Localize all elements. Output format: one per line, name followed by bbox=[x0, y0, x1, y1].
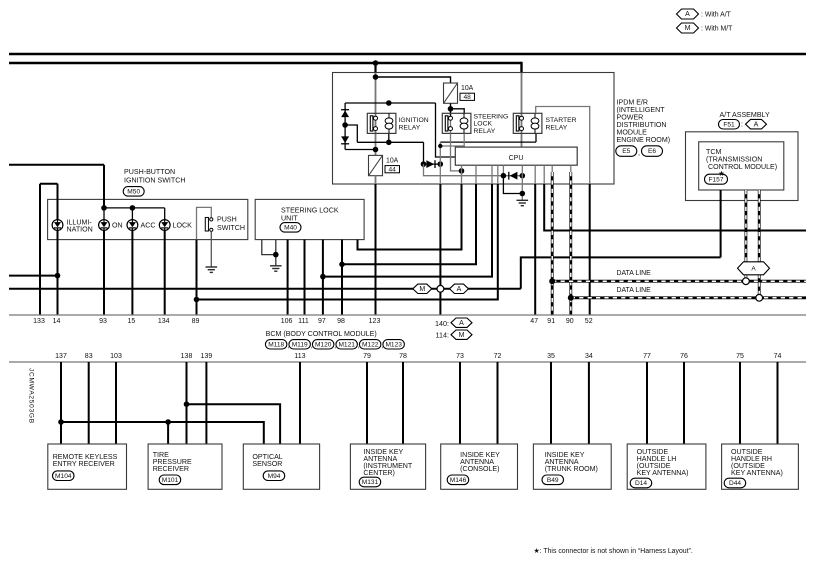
legend hexagon A : With A/T bbox=[677, 9, 699, 19]
diode in series on relay coil return bbox=[424, 163, 441, 165]
node: feed branch to fuse 48 bbox=[373, 74, 379, 80]
node: open circle data line 1 bbox=[743, 278, 750, 285]
node: pin138 branch bbox=[184, 401, 190, 407]
wire: ACC led stub bbox=[131, 208, 133, 220]
node bbox=[520, 191, 526, 197]
wire: diode chain bottom to main feed bbox=[345, 149, 375, 151]
wire: edge line to pin 14 bbox=[9, 275, 58, 277]
svg-text:DATA LINE: DATA LINE bbox=[617, 270, 652, 277]
svg-text:IGNITION SWITCH: IGNITION SWITCH bbox=[124, 177, 185, 185]
LED: ACC bbox=[127, 220, 138, 231]
BCM bottom line bbox=[9, 361, 806, 363]
svg-text:134: 134 bbox=[158, 318, 170, 325]
wire: push switch drop to pin 89 bbox=[196, 240, 198, 315]
svg-text:(CONSOLE): (CONSOLE) bbox=[460, 465, 499, 473]
fuse 44 10A bbox=[369, 155, 383, 175]
svg-text:A: A bbox=[751, 266, 756, 273]
node: SL contact joins L1 vertical bbox=[459, 168, 465, 174]
svg-text:52: 52 bbox=[585, 318, 593, 325]
TCM box bbox=[699, 142, 784, 190]
svg-text:44: 44 bbox=[389, 167, 397, 174]
svg-text:89: 89 bbox=[192, 318, 200, 325]
svg-text:97: 97 bbox=[318, 318, 326, 325]
svg-text:BCM (BODY CONTROL MODULE): BCM (BODY CONTROL MODULE) bbox=[266, 330, 377, 338]
svg-text:RELAY: RELAY bbox=[399, 124, 421, 131]
svg-text:47: 47 bbox=[530, 318, 538, 325]
push switch symbol bbox=[205, 218, 208, 232]
wire: CPU pin L2 bbox=[475, 165, 477, 184]
node: pin 97 branch bbox=[320, 274, 326, 280]
wire: pin 90 dashed drop bbox=[569, 172, 572, 315]
relay: starter relay bbox=[513, 113, 542, 133]
svg-text:M40: M40 bbox=[284, 225, 297, 232]
wire: drop to series diode bbox=[423, 142, 425, 164]
svg-text:ENTRY RECEIVER: ENTRY RECEIVER bbox=[53, 460, 115, 468]
wire: pin 47 drop bbox=[534, 184, 536, 315]
svg-text:D14: D14 bbox=[635, 480, 647, 487]
svg-text:STEERING LOCK: STEERING LOCK bbox=[281, 206, 339, 214]
svg-text:M50: M50 bbox=[127, 189, 140, 196]
ground: CPU ground bbox=[517, 199, 529, 201]
svg-text:91: 91 bbox=[547, 318, 555, 325]
svg-text:ENGINE ROOM): ENGINE ROOM) bbox=[617, 136, 671, 144]
svg-text:14: 14 bbox=[53, 318, 61, 325]
LED: LOCK bbox=[159, 220, 170, 231]
svg-text:93: 93 bbox=[99, 318, 107, 325]
svg-text:74: 74 bbox=[774, 353, 782, 360]
svg-text:IGNITION: IGNITION bbox=[399, 117, 429, 124]
diode D1 (up) bbox=[341, 111, 349, 118]
wire: pin-140 vertical inside IPDM bbox=[439, 142, 441, 184]
svg-text:111: 111 bbox=[298, 318, 309, 325]
svg-text:CENTER): CENTER) bbox=[363, 469, 395, 477]
svg-text:(TRUNK ROOM): (TRUNK ROOM) bbox=[545, 465, 598, 473]
LED: ON bbox=[99, 220, 110, 231]
push switch bridge bbox=[197, 207, 212, 239]
svg-text:E5: E5 bbox=[622, 148, 630, 155]
wire: ignition relay coil top line bbox=[345, 102, 435, 104]
svg-text:CPU: CPU bbox=[509, 155, 524, 162]
wire: TCM solid pin down bbox=[720, 190, 722, 257]
svg-text:E6: E6 bbox=[648, 148, 656, 155]
svg-text::: : bbox=[741, 121, 743, 129]
wire: CPU diode line bbox=[503, 175, 522, 177]
connector F157 bbox=[705, 174, 728, 184]
svg-text:JCMWA2503GB: JCMWA2503GB bbox=[28, 368, 35, 424]
CPU box bbox=[455, 147, 577, 165]
svg-text:LOCK: LOCK bbox=[474, 121, 493, 128]
connector F51 bbox=[719, 120, 740, 130]
wire: fuse 44 output to IPDM bottom bbox=[375, 176, 377, 184]
wire: push switch to ground bbox=[210, 231, 212, 267]
wire: LOCK led stub bbox=[164, 208, 166, 220]
svg-text:M94: M94 bbox=[268, 473, 281, 480]
wire: pin 91 dashed drop bbox=[551, 172, 554, 315]
wire: CPU pin L3 bbox=[491, 165, 493, 184]
wire: SL relay contact bottom to CPU-L1 node bbox=[451, 133, 462, 171]
node: diode chain middle tap bbox=[342, 122, 348, 128]
svg-text:M121: M121 bbox=[338, 342, 355, 349]
svg-text:UNIT: UNIT bbox=[281, 215, 298, 223]
connector M50 bbox=[123, 187, 144, 197]
wire: pin 97 branch to CPU (L3) bbox=[323, 184, 492, 277]
svg-text:72: 72 bbox=[494, 353, 502, 360]
svg-text:RELAY: RELAY bbox=[546, 124, 568, 131]
svg-text:SWITCH: SWITCH bbox=[217, 224, 245, 232]
LED: illumination bbox=[52, 220, 63, 231]
wire: diode middle tap to relay coil-bottom line bbox=[345, 125, 357, 142]
svg-text:M146: M146 bbox=[450, 477, 467, 484]
box: outside handle LH D14 bbox=[627, 444, 706, 489]
wire: SLU right pin to CPU (L1) bbox=[358, 184, 462, 250]
wire: SLU pin 98 bbox=[341, 240, 343, 315]
wire: drop to tire pressure receiver bbox=[167, 422, 169, 444]
wire: TCM dashed pin 2 bbox=[758, 190, 761, 295]
svg-text:NATION: NATION bbox=[67, 226, 93, 234]
svg-text:35: 35 bbox=[547, 353, 555, 360]
svg-text:123: 123 bbox=[369, 318, 381, 325]
wire: pin 140/114 drop bbox=[439, 184, 441, 315]
svg-text:M122: M122 bbox=[362, 342, 379, 349]
wire: ignition coil bottom stub bbox=[388, 133, 390, 142]
wire: CPU pin L4 bbox=[497, 165, 499, 184]
relay: ignition relay bbox=[367, 113, 396, 133]
connector M40 bbox=[280, 223, 301, 233]
wire: pin 133 drop bbox=[39, 184, 41, 315]
wire: CPU pin to A/T line bbox=[543, 165, 545, 184]
wire: CPU pin 47 bbox=[534, 165, 536, 184]
svg-text:48: 48 bbox=[464, 94, 472, 101]
node: bus junction on IPDM main feed bbox=[373, 60, 379, 66]
svg-text:KEY ANTENNA): KEY ANTENNA) bbox=[637, 469, 689, 477]
svg-text:78: 78 bbox=[399, 353, 407, 360]
svg-text:103: 103 bbox=[110, 353, 122, 360]
svg-text:M104: M104 bbox=[55, 473, 72, 480]
svg-text:A: A bbox=[685, 11, 690, 18]
wire: M/T - A/T select line bbox=[9, 288, 521, 290]
wire: pin138 branch to optical sensor bbox=[187, 404, 281, 444]
svg-text:KEY ANTENNA): KEY ANTENNA) bbox=[731, 469, 783, 477]
hexagon M inline bbox=[413, 284, 432, 293]
svg-text:77: 77 bbox=[643, 353, 651, 360]
svg-text:73: 73 bbox=[456, 353, 464, 360]
svg-text:RELAY: RELAY bbox=[474, 128, 496, 135]
connector E6 bbox=[642, 146, 663, 157]
node: pin137 branch bbox=[58, 419, 64, 425]
node bbox=[568, 295, 574, 301]
wire: illumination feed bracket bbox=[40, 183, 58, 185]
node: pin14 edge line junction bbox=[55, 273, 61, 279]
ground: steering lock unit bbox=[270, 265, 282, 267]
wire: main feed vertical into IPDM (to ignition relay and fuse 44) bbox=[374, 62, 376, 73]
svg-text:ACC: ACC bbox=[141, 221, 156, 229]
wire: SLU pin 106 bbox=[287, 240, 289, 315]
box: tire pressure receiver M101 bbox=[148, 444, 222, 489]
diode near CPU (left) bbox=[508, 172, 510, 180]
wire: CPU pin L1 (to steering lock unit) bbox=[461, 165, 463, 184]
svg-text:A/T ASSEMBLY: A/T ASSEMBLY bbox=[720, 111, 770, 119]
node: ignition coil bottom junction bbox=[386, 140, 392, 146]
wire: diode bypass loop bbox=[503, 176, 522, 194]
wire: branch to steering lock relay coil bbox=[451, 109, 465, 114]
wire: branch to fuse 48 bbox=[376, 77, 451, 83]
svg-text:★: This connector is not shown: ★: This connector is not shown in “Harne… bbox=[534, 547, 693, 555]
svg-text:SENSOR: SENSOR bbox=[252, 460, 282, 468]
svg-text:34: 34 bbox=[585, 353, 593, 360]
wire: fuse 48 output to steering lock relay bbox=[450, 103, 452, 133]
node: branch to tire pressure receiver bbox=[165, 419, 171, 425]
wire: TCM line to A-hex line bbox=[521, 257, 721, 288]
legend hexagon M : With M/T bbox=[677, 23, 699, 33]
node: diode chain bottom junction bbox=[373, 147, 379, 153]
svg-text:76: 76 bbox=[680, 353, 688, 360]
wire: pin 89 branch to CPU (L4) bbox=[197, 184, 498, 300]
wires: row 2 pin drops bbox=[60, 362, 62, 444]
wire: SLU ground pins bbox=[262, 240, 276, 255]
svg-text:138: 138 bbox=[181, 353, 193, 360]
svg-text:STEERING: STEERING bbox=[474, 113, 509, 120]
wire: CPU pin to diode line bbox=[502, 165, 504, 176]
svg-text:113: 113 bbox=[294, 353, 305, 360]
A/T assembly box bbox=[686, 132, 799, 201]
node bbox=[520, 173, 526, 179]
node bbox=[501, 173, 507, 179]
svg-text:M119: M119 bbox=[292, 342, 308, 349]
svg-text:M118: M118 bbox=[268, 342, 284, 349]
node: pin 98 branch bbox=[339, 262, 345, 268]
svg-text:137: 137 bbox=[55, 353, 67, 360]
wire: TCM dashed pin 1 bbox=[745, 190, 748, 278]
svg-text:STARTER: STARTER bbox=[546, 117, 577, 124]
wire: relay coil bottom line (right part to starter) bbox=[440, 141, 536, 143]
connector E5 bbox=[616, 146, 637, 157]
relay: steering lock relay bbox=[442, 113, 471, 133]
IPDM E/R box bbox=[333, 73, 615, 185]
svg-text:98: 98 bbox=[337, 318, 345, 325]
node: SL coil joins pin-140 vertical bbox=[438, 144, 442, 148]
box: outside handle RH D44 bbox=[722, 444, 799, 489]
svg-text:B49: B49 bbox=[547, 477, 559, 484]
svg-text:,: , bbox=[638, 149, 640, 157]
box: inside key antenna trunk room B49 bbox=[533, 444, 611, 489]
svg-text:90: 90 bbox=[566, 318, 574, 325]
wire: CPU line to page edge (y=230) bbox=[544, 184, 806, 231]
ground: push switch bbox=[206, 266, 218, 268]
wire: pin137 branch line bbox=[61, 422, 264, 444]
steering lock unit box bbox=[255, 199, 364, 239]
svg-text:10A: 10A bbox=[461, 85, 474, 92]
node: fuse 48 output branch bbox=[448, 106, 454, 112]
wire: relay coil bottom line (left part) bbox=[357, 141, 423, 143]
hexagon A over TCM data pins bbox=[738, 262, 770, 275]
svg-text:15: 15 bbox=[128, 318, 136, 325]
wire: ON led stub bbox=[103, 208, 105, 220]
node: coil top junction bbox=[386, 100, 392, 106]
wire: CPU pin 91 bbox=[551, 165, 553, 172]
wire: LED drops to BCM pins 14/93/15/134 bbox=[57, 230, 59, 315]
svg-text:10A: 10A bbox=[386, 158, 399, 165]
svg-text:106: 106 bbox=[281, 318, 293, 325]
fuse 48 10A bbox=[444, 83, 458, 103]
wire: led top row bbox=[104, 207, 165, 209]
wire: starter coil bottom stub bbox=[535, 133, 537, 142]
svg-text:F51: F51 bbox=[723, 121, 735, 128]
hexagon A (A/T) bbox=[746, 119, 767, 129]
wire: SLU pin 97 bbox=[322, 240, 324, 315]
svg-text:M101: M101 bbox=[162, 477, 179, 484]
box: optical sensor M94 bbox=[243, 444, 319, 489]
hexagon A inline bbox=[450, 284, 469, 293]
svg-text:DATA LINE: DATA LINE bbox=[617, 287, 652, 294]
svg-text:M120: M120 bbox=[315, 342, 332, 349]
svg-text:133: 133 bbox=[33, 318, 45, 325]
wire: battery bus line 1 bbox=[9, 53, 806, 55]
svg-text:75: 75 bbox=[736, 353, 744, 360]
wire: SL relay coil bottom to pin140 drop bbox=[440, 133, 464, 146]
svg-text:PUSH-BUTTON: PUSH-BUTTON bbox=[124, 168, 175, 176]
box: inside key antenna instrument center M131 bbox=[350, 444, 425, 489]
wire: starter relay feed drop from bus 2 bbox=[520, 62, 522, 73]
box: remote keyless entry receiver M104 bbox=[48, 444, 127, 489]
svg-text:A: A bbox=[459, 320, 464, 327]
svg-text:LOCK: LOCK bbox=[173, 221, 193, 229]
wire: pin 123 drop to BCM bbox=[375, 184, 377, 315]
svg-text:M123: M123 bbox=[385, 342, 402, 349]
wire: ILL led top stub bbox=[57, 184, 59, 220]
svg-text:D44: D44 bbox=[729, 480, 741, 487]
svg-text:★: ★ bbox=[718, 169, 725, 178]
push-button ignition switch box bbox=[48, 199, 248, 239]
node bbox=[273, 252, 279, 258]
svg-text:114:: 114: bbox=[436, 331, 449, 340]
wire: pin 52 drop bbox=[589, 184, 591, 315]
wire: pin 98 branch to CPU (L2) bbox=[342, 184, 476, 264]
svg-text:M: M bbox=[419, 286, 425, 293]
svg-text:A: A bbox=[457, 286, 462, 293]
svg-text:: With A/T: : With A/T bbox=[701, 11, 732, 18]
svg-text:: With M/T: : With M/T bbox=[701, 25, 733, 32]
BCM top line bbox=[9, 314, 806, 316]
svg-text:79: 79 bbox=[363, 353, 371, 360]
BCM connectors M118-M123 bbox=[265, 340, 287, 349]
wire: drop to CPU left-side pin bbox=[436, 103, 456, 157]
wire: starter coil top to pin 52 drop bbox=[536, 107, 590, 185]
svg-text:PUSH: PUSH bbox=[217, 216, 237, 224]
svg-text:M131: M131 bbox=[362, 479, 379, 486]
diode chain vertical bbox=[344, 103, 346, 150]
svg-text:M: M bbox=[685, 25, 691, 32]
wire: data line 1 bbox=[552, 280, 806, 283]
diode D2 (down) bbox=[341, 136, 349, 143]
svg-text:RECEIVER: RECEIVER bbox=[153, 465, 189, 473]
wire: data line 2 bbox=[571, 296, 806, 299]
wire: led row feed from page edge bbox=[9, 164, 104, 166]
wire: SLU pin 111 bbox=[304, 240, 306, 315]
node bbox=[549, 278, 555, 284]
svg-text:A: A bbox=[754, 121, 759, 128]
node: pin 89 branch bbox=[194, 297, 200, 303]
svg-text:M: M bbox=[459, 332, 465, 339]
svg-text:140:: 140: bbox=[435, 319, 449, 328]
node: open circle data line 2 bbox=[756, 294, 763, 301]
wire: diode bypass to CPU diode line bbox=[424, 164, 504, 176]
wire: CPU pin to ground bbox=[521, 165, 523, 200]
svg-text:ON: ON bbox=[112, 221, 123, 229]
svg-text:139: 139 bbox=[201, 353, 213, 360]
wire: CPU pin 90 bbox=[570, 165, 572, 172]
box: inside key antenna console M146 bbox=[441, 444, 518, 489]
svg-text:83: 83 bbox=[85, 353, 93, 360]
wire: battery bus line 2 bbox=[9, 62, 522, 64]
